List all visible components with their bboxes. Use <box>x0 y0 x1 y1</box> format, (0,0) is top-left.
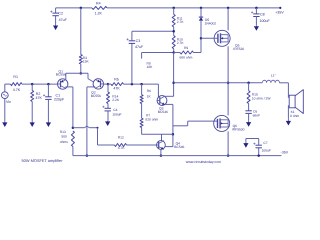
svg-text:100uF: 100uF <box>262 149 271 153</box>
svg-text:IRF530: IRF530 <box>233 47 244 51</box>
svg-text:R12: R12 <box>118 135 124 139</box>
svg-text:100uF: 100uF <box>260 19 271 23</box>
svg-text:C2: C2 <box>58 11 63 15</box>
svg-text:10 ohm / 2W: 10 ohm / 2W <box>252 97 272 101</box>
svg-text:+35V: +35V <box>275 10 284 14</box>
svg-text:50W MOSFET amplifier: 50W MOSFET amplifier <box>22 158 64 163</box>
svg-text:2.7K: 2.7K <box>177 20 185 24</box>
svg-text:R1: R1 <box>13 75 18 79</box>
svg-text:R5: R5 <box>114 78 119 82</box>
svg-text:1N4002: 1N4002 <box>205 21 217 25</box>
svg-text:47uF: 47uF <box>59 18 68 22</box>
svg-text:8 ohm: 8 ohm <box>290 114 299 118</box>
svg-text:500: 500 <box>61 135 67 139</box>
svg-text:47K: 47K <box>36 96 43 100</box>
svg-text:15K: 15K <box>83 60 90 64</box>
svg-text:R6: R6 <box>147 89 151 93</box>
svg-text:680 ohm: 680 ohm <box>180 55 193 59</box>
svg-text:47uF: 47uF <box>135 45 144 49</box>
svg-text:220pF: 220pF <box>54 97 65 101</box>
svg-text:R4: R4 <box>96 2 101 6</box>
svg-text:C3: C3 <box>136 39 141 43</box>
svg-text:68nF: 68nF <box>253 113 261 117</box>
svg-text:4.7K: 4.7K <box>118 146 126 150</box>
svg-text:www.circuitstoday.com: www.circuitstoday.com <box>186 160 221 164</box>
svg-text:L1°: L1° <box>271 73 277 77</box>
svg-text:1.2K: 1.2K <box>95 11 103 15</box>
svg-text:BC556: BC556 <box>56 73 66 77</box>
svg-text:2.2K: 2.2K <box>112 98 120 102</box>
svg-text:ohms: ohms <box>60 140 68 144</box>
svg-text:BC546: BC546 <box>174 145 184 149</box>
svg-text:18K: 18K <box>147 65 154 69</box>
svg-text:R13: R13 <box>60 130 66 134</box>
svg-text:-35V: -35V <box>281 150 289 154</box>
svg-text:820 ohm: 820 ohm <box>145 118 158 122</box>
svg-text:BC546: BC546 <box>158 110 168 114</box>
svg-text:4.7K: 4.7K <box>13 88 21 92</box>
svg-text:C8: C8 <box>260 13 265 17</box>
svg-text:R9: R9 <box>184 46 188 50</box>
svg-text:100uF: 100uF <box>112 112 121 116</box>
svg-text:BC556: BC556 <box>91 94 101 98</box>
svg-text:IRF9530: IRF9530 <box>232 127 245 131</box>
svg-text:C7: C7 <box>263 141 267 145</box>
svg-text:47K: 47K <box>113 86 120 90</box>
svg-text:2.7K: 2.7K <box>177 41 185 45</box>
svg-text:Vin: Vin <box>6 100 11 104</box>
